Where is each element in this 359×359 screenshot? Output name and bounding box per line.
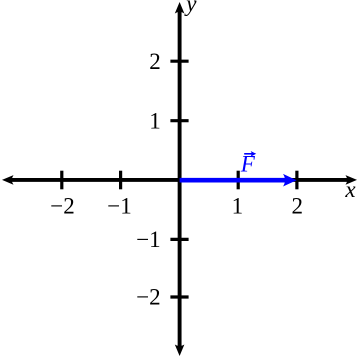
svg-text:F: F (240, 152, 256, 177)
svg-text:x: x (344, 177, 356, 202)
svg-text:2: 2 (292, 193, 304, 218)
tick x=2 (295, 171, 298, 190)
x-axis left arrowhead (2, 175, 14, 185)
tick y=1 (170, 119, 188, 122)
vec arrow over F (244, 153, 253, 155)
svg-text:2: 2 (149, 49, 161, 74)
tick x=-1 (119, 171, 122, 190)
tick y=-1 (170, 238, 188, 241)
vector F from origin to (2,0) (180, 178, 285, 183)
svg-text:1: 1 (149, 108, 161, 133)
tick y=2 (170, 60, 188, 63)
tick y=-2 (170, 295, 188, 298)
svg-text:−1: −1 (107, 193, 131, 218)
tick x=1 (237, 171, 240, 190)
svg-text:−2: −2 (136, 284, 160, 309)
tick x=-2 (60, 171, 63, 190)
vector F arrowhead (283, 174, 297, 187)
vec arrowhead over F (251, 151, 257, 157)
svg-text:−1: −1 (136, 227, 160, 252)
y-axis top arrowhead (175, 2, 185, 14)
y-axis bottom arrowhead (175, 345, 185, 357)
svg-text:y: y (184, 0, 197, 16)
y-axis line (178, 8, 182, 350)
svg-text:−2: −2 (50, 193, 74, 218)
svg-text:1: 1 (232, 193, 244, 218)
x-axis right arrowhead (346, 175, 358, 185)
x-axis line (8, 178, 350, 182)
